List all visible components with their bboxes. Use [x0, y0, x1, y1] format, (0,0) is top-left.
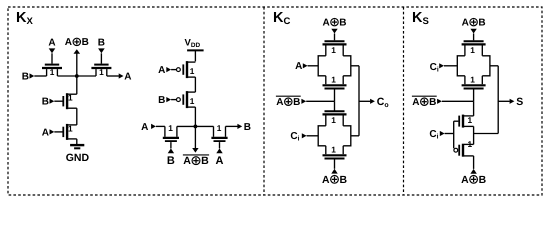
junction dot on rail	[194, 125, 198, 129]
transistor, gate A (pMOS)	[186, 61, 188, 78]
svg-text:A: A	[412, 97, 419, 108]
svg-text:1: 1	[331, 115, 336, 125]
svg-text:B: B	[293, 97, 300, 108]
transmission gate: bottom transistor	[325, 76, 327, 84]
wire	[442, 100, 474, 102]
wire	[308, 65, 319, 67]
svg-text:S: S	[516, 96, 523, 108]
transmission gate: top transistor	[464, 40, 484, 42]
transmission gate: bottom transistor	[464, 76, 466, 84]
svg-text:B: B	[42, 97, 49, 108]
output riser wire A^B	[76, 53, 78, 76]
input terminal A xor B	[331, 29, 337, 34]
svg-text:1: 1	[68, 123, 73, 133]
svg-text:1: 1	[470, 75, 475, 85]
wire to S terminal	[498, 100, 510, 102]
transistor, gate B (nMOS pulldown)	[66, 93, 68, 109]
ground symbol GND	[70, 144, 84, 146]
wire	[194, 50, 196, 61]
dashed separator between KX and KC	[263, 7, 265, 195]
svg-text:A: A	[158, 65, 165, 76]
svg-text:A: A	[295, 61, 302, 72]
svg-text:B: B	[98, 38, 105, 49]
wire pMOS source down to terminal	[473, 156, 475, 169]
svg-text:1: 1	[99, 67, 104, 77]
svg-text:B: B	[339, 17, 346, 28]
wire to Co terminal	[359, 100, 370, 102]
svg-text:A: A	[65, 37, 72, 48]
output terminal S	[510, 99, 515, 104]
svg-text:B: B	[244, 122, 251, 133]
node A^B with junction dot	[75, 74, 79, 78]
svg-text:1: 1	[331, 145, 336, 155]
wire	[334, 34, 336, 41]
input terminal not-(A xor B)	[301, 99, 306, 104]
svg-text:B: B	[429, 97, 436, 108]
wire gate lead from TG bottom plate down	[473, 89, 475, 101]
svg-text:B: B	[479, 175, 487, 186]
wire	[194, 77, 196, 92]
svg-text:A: A	[461, 175, 469, 186]
svg-text:1: 1	[331, 45, 336, 55]
svg-text:A: A	[462, 17, 469, 28]
transistor, gate Ci (nMOS of KS output stage)	[462, 115, 464, 128]
svg-text:A: A	[322, 175, 330, 186]
svg-text:1: 1	[467, 115, 472, 125]
transmission gate: bottom transistor	[325, 146, 327, 154]
wire	[306, 100, 334, 102]
svg-text:A: A	[276, 97, 283, 108]
wire	[34, 75, 46, 77]
svg-text:1: 1	[50, 67, 55, 77]
wire gate lead down to TG2	[334, 101, 336, 111]
wire	[444, 65, 457, 67]
wire	[226, 125, 238, 127]
svg-text:A: A	[124, 71, 131, 82]
wire	[76, 139, 78, 144]
output terminal B (right)	[237, 124, 242, 129]
wire output stage to S line	[474, 133, 499, 135]
svg-text:A: A	[216, 155, 224, 167]
transistor, gate B (pass nMOS below rail)	[164, 126, 166, 136]
svg-text:A: A	[42, 127, 49, 138]
input terminal A xor B	[470, 29, 476, 34]
svg-text:1: 1	[217, 123, 222, 133]
wire nMOS drain to pMOS drain	[473, 126, 475, 144]
transistor, gate B (pMOS)	[186, 91, 188, 108]
output terminal Co	[370, 99, 375, 104]
output bus wire of KS	[490, 65, 498, 67]
svg-text:1: 1	[168, 123, 173, 133]
input terminal not-(A xor B)	[437, 99, 442, 104]
svg-text:A: A	[48, 38, 55, 49]
svg-text:B: B	[167, 155, 175, 167]
transistor, gate A (pass nMOS below rail)	[213, 126, 215, 136]
transistor, gate A (nMOS pulldown)	[66, 124, 68, 140]
svg-text:GND: GND	[66, 152, 90, 164]
svg-text:A: A	[322, 17, 329, 28]
wire	[177, 125, 214, 127]
gate wire from Ci	[453, 121, 455, 148]
svg-text:1: 1	[467, 139, 472, 149]
TG box side wires	[318, 56, 326, 76]
svg-text:1: 1	[190, 66, 195, 76]
wire	[57, 75, 96, 77]
wire	[107, 75, 119, 77]
dashed frame border	[8, 7, 542, 195]
svg-text:B: B	[22, 71, 29, 82]
wire	[194, 107, 196, 126]
wire gate lead from bottom plate of TG1 to mid wire	[334, 89, 336, 101]
svg-text:1: 1	[331, 75, 336, 85]
transistor, gate B (top pass nMOS)	[91, 67, 111, 69]
svg-text:B: B	[158, 95, 165, 106]
svg-text:B: B	[82, 37, 89, 48]
wire	[156, 125, 165, 127]
VDD rail bar	[187, 49, 204, 51]
svg-text:1: 1	[68, 93, 73, 103]
wire	[307, 135, 319, 137]
wire	[76, 108, 78, 125]
wire	[76, 76, 78, 94]
output drop wire not-(A xor B)	[194, 126, 196, 148]
wire gate lead to bottom terminal	[334, 160, 336, 169]
transmission gate: top transistor	[325, 110, 345, 112]
dashed separator between KC and KS	[403, 7, 405, 195]
transistor, gate Ci with bubble (pMOS of KS output stage)	[454, 148, 458, 152]
svg-text:B: B	[201, 155, 209, 167]
svg-text:B: B	[339, 175, 347, 186]
output bus wire of KC	[351, 65, 359, 67]
svg-text:1: 1	[190, 96, 195, 106]
TG box side wires	[318, 126, 326, 146]
transmission gate: top transistor	[325, 40, 345, 42]
svg-text:B: B	[478, 17, 485, 28]
TG box side wires	[457, 56, 465, 76]
output terminal A (right)	[119, 73, 124, 78]
transistor, gate A (top pass nMOS)	[42, 67, 62, 69]
svg-text:A: A	[183, 155, 191, 167]
wire down from mid junction to nMOS source	[473, 101, 475, 116]
svg-text:A: A	[141, 122, 148, 133]
svg-text:1: 1	[470, 45, 475, 55]
wire	[473, 34, 475, 41]
